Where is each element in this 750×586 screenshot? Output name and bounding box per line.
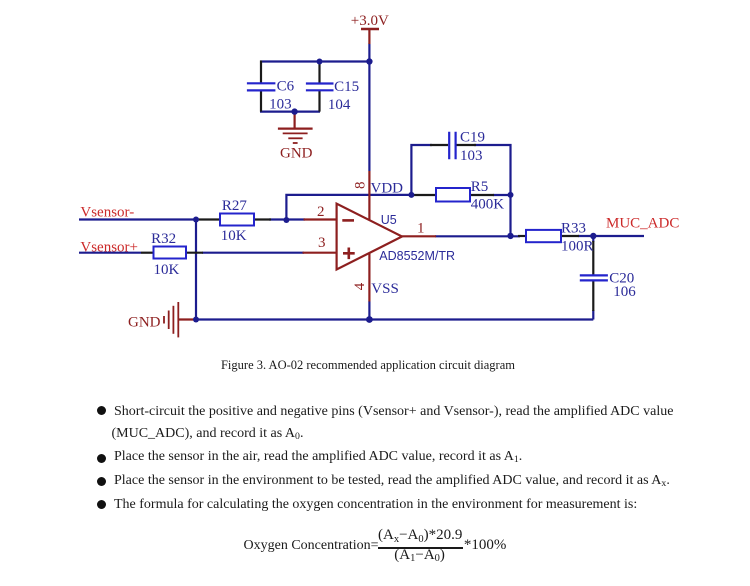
svg-text:VSS: VSS — [371, 281, 399, 297]
svg-text:C6: C6 — [277, 79, 295, 95]
svg-text:VDD: VDD — [371, 181, 404, 197]
svg-text:4: 4 — [352, 282, 368, 290]
svg-text:R5: R5 — [471, 179, 489, 195]
svg-text:103: 103 — [460, 148, 483, 164]
svg-text:1: 1 — [417, 221, 425, 237]
svg-text:AD8552M/TR: AD8552M/TR — [379, 249, 455, 263]
svg-text:Vsensor-: Vsensor- — [80, 205, 134, 221]
svg-text:R32: R32 — [151, 231, 176, 247]
svg-text:U5: U5 — [381, 213, 397, 227]
svg-text:103: 103 — [269, 96, 292, 112]
svg-text:2: 2 — [317, 204, 325, 220]
svg-text:10K: 10K — [221, 228, 247, 244]
svg-text:400K: 400K — [471, 196, 505, 212]
svg-text:MUC_ADC: MUC_ADC — [606, 216, 679, 232]
svg-text:106: 106 — [613, 284, 636, 300]
svg-text:8: 8 — [352, 182, 368, 190]
svg-text:C19: C19 — [460, 130, 485, 146]
svg-text:104: 104 — [328, 97, 351, 113]
svg-text:R33: R33 — [561, 220, 586, 236]
svg-text:GND: GND — [280, 146, 313, 162]
svg-text:R27: R27 — [222, 198, 248, 214]
svg-text:GND: GND — [128, 315, 161, 331]
svg-text:10K: 10K — [154, 262, 180, 278]
svg-text:C15: C15 — [334, 79, 359, 95]
svg-text:Vsensor+: Vsensor+ — [80, 239, 138, 255]
svg-text:+3.0V: +3.0V — [351, 13, 389, 29]
svg-text:3: 3 — [318, 235, 326, 251]
svg-text:100R: 100R — [561, 239, 594, 255]
